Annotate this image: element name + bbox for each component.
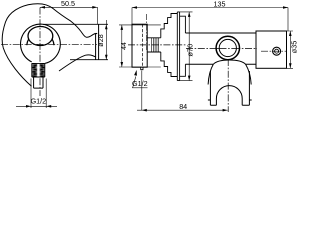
tube below thread [34, 77, 43, 88]
arm bottom edge [185, 63, 256, 65]
holder bell flare right front [52, 39, 54, 45]
holder bell flare left front [27, 39, 29, 45]
side view lower bell curve [59, 55, 96, 71]
dim 44 arrows [121, 25, 124, 67]
svg-text:G1/2: G1/2 [31, 97, 47, 106]
nipple thread hatch [152, 38, 159, 52]
dim G1/2 arrows [26, 105, 51, 108]
thread knurl white backing [32, 63, 45, 77]
dim G1/2 line [16, 105, 57, 107]
dim 50.5 right extension [97, 7, 99, 24]
dim 50.5 arrows [40, 6, 97, 9]
dim o35 arrows [289, 31, 292, 68]
pivot ring white fill [216, 36, 240, 60]
side view top edge / projection line [43, 23, 108, 25]
svg-text:ø35: ø35 [290, 41, 299, 53]
knob ring outer [273, 47, 281, 55]
pivot ring outer [216, 36, 239, 59]
side view wall flange lines [96, 24, 99, 59]
dim G1/2 right extension [45, 79, 47, 109]
flange staircase [161, 12, 186, 81]
knob centerline [261, 50, 287, 52]
dim 135 left extension [131, 8, 133, 26]
wall plate keyhole notch [141, 67, 143, 70]
dim 135 line [132, 7, 288, 9]
knob white fill [272, 47, 281, 56]
dim o70 arrows [188, 12, 191, 81]
escutcheon circle front view [21, 24, 61, 63]
dim G1/2 left extension [30, 79, 32, 109]
right assembly inlet centerline [128, 44, 186, 46]
dim 44 line [121, 25, 123, 67]
nipple outline [147, 38, 161, 52]
thread outline [32, 63, 45, 77]
wire swivel envelope sweep [2, 4, 97, 87]
holder bell right skirt [246, 64, 252, 84]
svg-text:44: 44 [121, 42, 128, 50]
svg-text:ø28: ø28 [96, 34, 105, 46]
dim 84 arrows [142, 109, 228, 112]
right assembly arm centerline [186, 48, 257, 50]
circuit-style labelled technical drawing [0, 0, 300, 113]
dim o35 extensions [287, 31, 294, 68]
dim o28 line [105, 20, 107, 60]
knob ring inner [275, 49, 279, 53]
svg-text:135: 135 [214, 0, 226, 8]
wall plate [132, 24, 147, 67]
dim 135 right extension [287, 8, 289, 32]
cup rim nubs [208, 99, 252, 101]
dim o70 line [188, 12, 190, 81]
label G1/2 leader [133, 77, 136, 88]
dim o28 arrows [105, 24, 108, 59]
wall plate slot centerline [146, 14, 148, 50]
svg-text:84: 84 [179, 102, 187, 111]
thread knurl zigzag right [40, 64, 45, 77]
wall plate slot hidden line [142, 24, 144, 67]
svg-text:ø70: ø70 [186, 44, 195, 57]
cup horseshoe arch [216, 86, 242, 106]
cup wall left [209, 71, 211, 105]
cup centerline vertical [227, 59, 229, 112]
dim 135 arrows [132, 6, 288, 9]
svg-text:50.5: 50.5 [61, 0, 75, 8]
centerline through ring [217, 48, 240, 50]
dim 84 left extension [141, 71, 143, 111]
dim o35 line [289, 31, 291, 68]
thread knurl zigzag left [32, 64, 37, 77]
holder ring ellipse [28, 27, 53, 46]
dim 44 bottom extension [119, 66, 161, 68]
cup wall right [248, 71, 250, 105]
holder bell left skirt [208, 64, 213, 84]
dim 44 top extension [119, 24, 161, 26]
label G1/2 leader arrow [134, 70, 137, 76]
holder bell dome [213, 60, 245, 64]
node front-view centerline horizontal [1, 43, 97, 45]
cylinder outline [256, 31, 287, 68]
dim o70 extensions [180, 12, 193, 81]
dim 84 line [137, 109, 228, 111]
label G1/2 underline [132, 87, 147, 89]
node front-view centerline vertical [39, 8, 41, 97]
side view bottom edge [70, 59, 108, 61]
dim 50.5 line [40, 6, 97, 8]
cup bottom feet [210, 104, 249, 106]
pivot ring inner [219, 39, 236, 56]
arm top edge [185, 32, 256, 34]
